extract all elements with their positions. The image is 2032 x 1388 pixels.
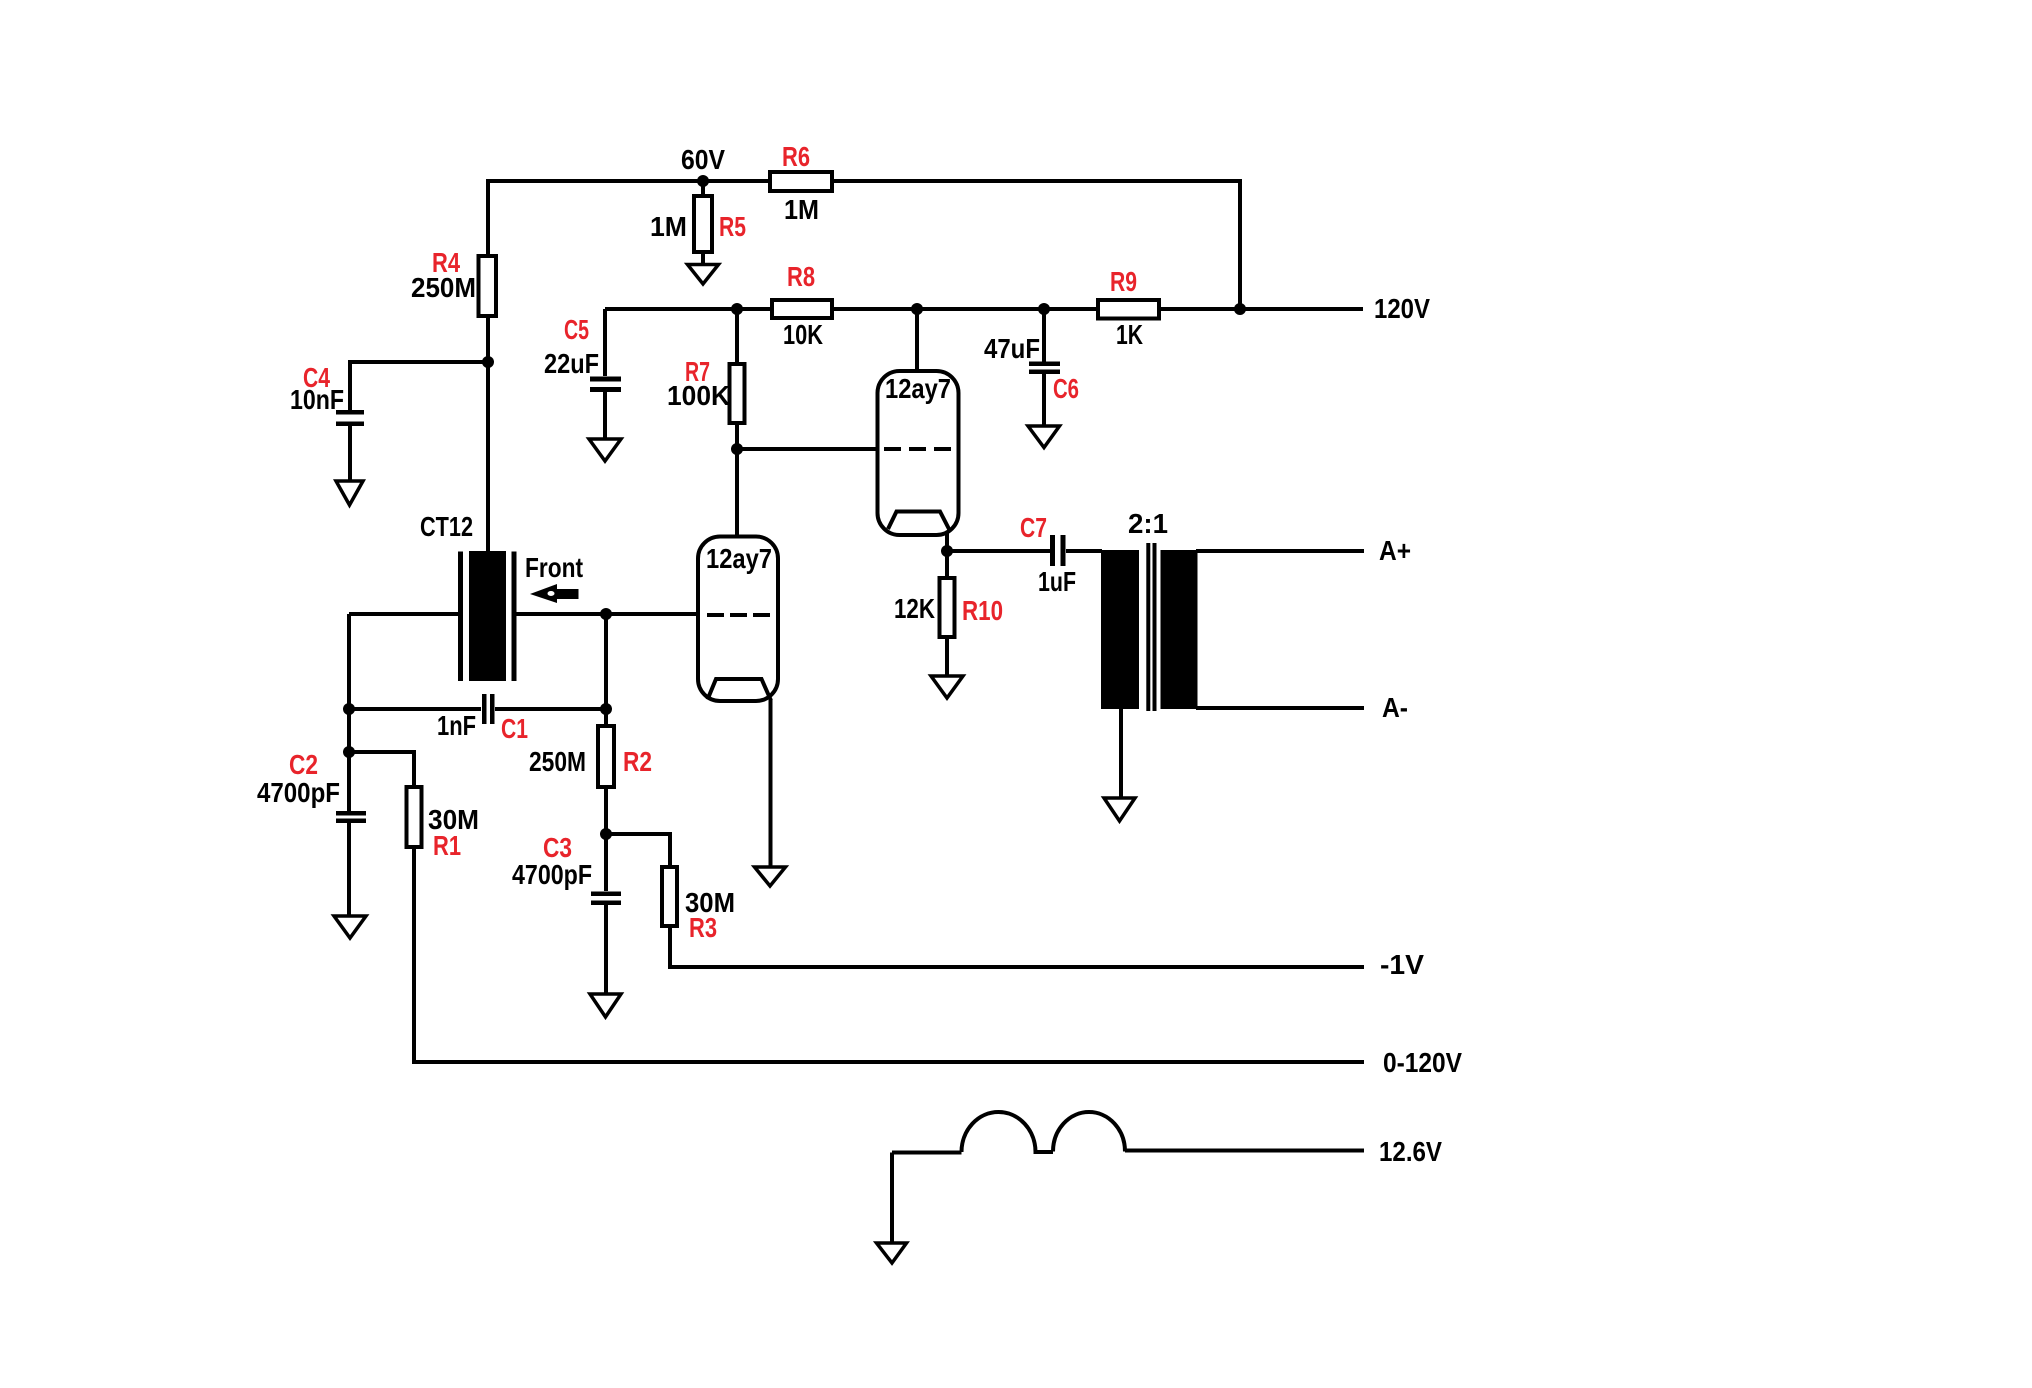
svg-text:C4: C4: [303, 362, 330, 393]
svg-text:R6: R6: [782, 141, 810, 172]
svg-text:C1: C1: [501, 713, 528, 744]
svg-text:-1V: -1V: [1380, 949, 1424, 980]
svg-text:C2: C2: [289, 749, 318, 780]
svg-text:C3: C3: [543, 832, 572, 863]
svg-text:120V: 120V: [1374, 293, 1430, 324]
svg-text:4700pF: 4700pF: [257, 777, 340, 808]
svg-text:R1: R1: [433, 830, 461, 861]
svg-text:R8: R8: [787, 261, 815, 292]
svg-text:12K: 12K: [894, 593, 935, 624]
svg-text:1M: 1M: [650, 211, 687, 242]
svg-text:1K: 1K: [1116, 319, 1143, 350]
svg-text:R7: R7: [685, 356, 710, 387]
svg-text:R5: R5: [719, 211, 746, 242]
svg-text:0-120V: 0-120V: [1383, 1047, 1462, 1078]
svg-text:12ay7: 12ay7: [885, 373, 951, 404]
svg-text:A-: A-: [1382, 692, 1408, 723]
svg-text:22uF: 22uF: [544, 348, 599, 379]
svg-text:C5: C5: [564, 314, 589, 345]
svg-text:12ay7: 12ay7: [706, 543, 772, 574]
svg-text:A+: A+: [1379, 535, 1411, 566]
svg-text:C6: C6: [1053, 373, 1079, 404]
svg-text:47uF: 47uF: [984, 333, 1040, 364]
svg-text:1M: 1M: [784, 194, 819, 225]
svg-text:R2: R2: [623, 746, 652, 777]
svg-text:12.6V: 12.6V: [1379, 1136, 1442, 1167]
svg-text:R10: R10: [962, 595, 1003, 626]
svg-text:250M: 250M: [529, 746, 586, 777]
svg-text:2:1: 2:1: [1128, 508, 1168, 539]
svg-text:60V: 60V: [681, 144, 725, 175]
svg-text:4700pF: 4700pF: [512, 859, 592, 890]
svg-text:R3: R3: [689, 912, 717, 943]
svg-text:C7: C7: [1020, 512, 1047, 543]
svg-text:1uF: 1uF: [1038, 566, 1076, 597]
svg-text:R9: R9: [1110, 266, 1137, 297]
svg-text:CT12: CT12: [420, 511, 473, 542]
svg-text:10K: 10K: [783, 319, 823, 350]
svg-text:1nF: 1nF: [437, 710, 476, 741]
svg-text:Front: Front: [525, 552, 583, 583]
svg-text:R4: R4: [432, 247, 460, 278]
